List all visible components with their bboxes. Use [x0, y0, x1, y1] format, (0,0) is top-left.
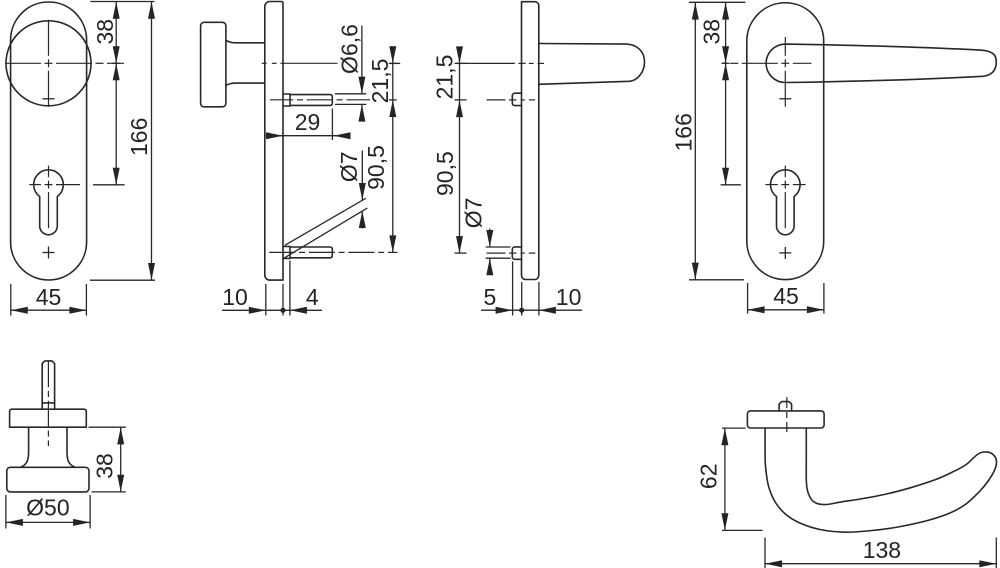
dimension line 166: [694, 2, 696, 280]
dimension dia 6,6: [361, 26, 363, 94]
keyhole centerline vertical: [48, 166, 50, 178]
extension line plate bottom: [689, 279, 744, 281]
knob neck top: [226, 41, 265, 43]
extension line keyhole center: [721, 184, 741, 186]
svg-text:Ø7: Ø7: [461, 198, 487, 229]
knob head drum: [7, 467, 89, 492]
svg-text:38: 38: [698, 19, 724, 45]
view 3: lever plate side view: [432, 2, 645, 316]
extension line plate top: [689, 1, 745, 3]
euro cylinder keyhole: [770, 170, 800, 235]
ext tick pin top axis: [455, 99, 467, 101]
plate (stadium 45x166): [747, 3, 824, 280]
knob head: [201, 22, 226, 107]
oblique extension lower: [284, 208, 367, 258]
rose flange: [747, 411, 824, 428]
pin bottom axis chain: [269, 251, 295, 253]
screw mark + bottom: [43, 252, 55, 254]
knob neck right: [67, 427, 75, 467]
svg-text:5: 5: [484, 284, 497, 310]
extension lines 45: [10, 284, 12, 316]
boss centerline vertical: [784, 37, 786, 56]
svg-text:45: 45: [773, 283, 799, 309]
dimension line 166: [151, 2, 153, 281]
svg-text:29: 29: [295, 109, 321, 135]
ext tick knob axis: [390, 62, 400, 64]
plate profile: [522, 2, 539, 280]
svg-text:Ø7: Ø7: [336, 151, 362, 182]
svg-text:90,5: 90,5: [432, 151, 458, 196]
svg-text:38: 38: [92, 19, 118, 45]
plate (stadium 45x166): [11, 2, 87, 280]
handle axis chain: [456, 62, 515, 64]
svg-text:45: 45: [36, 284, 62, 310]
dimension line 45: [748, 309, 824, 311]
screw mark + top: [779, 98, 791, 100]
knob circle: [6, 21, 91, 106]
svg-text:138: 138: [863, 537, 901, 563]
dimension line 38: [120, 427, 122, 492]
ext tick handle axis: [455, 62, 467, 64]
extension line keyhole center: [93, 184, 125, 186]
svg-text:Ø6,6: Ø6,6: [337, 24, 363, 74]
fixing pin bottom (head): [512, 247, 521, 259]
lever handle curved body: [765, 428, 996, 532]
view 4: lever plate front view: [670, 2, 996, 313]
rose flange: [10, 409, 87, 427]
ext lines 5 and 10: [512, 262, 514, 316]
ext line 62 bottom: [722, 529, 763, 531]
knob axis chain line: [262, 62, 267, 64]
svg-text:90,5: 90,5: [363, 145, 389, 190]
oblique extension upper: [285, 198, 366, 245]
fixing pin top: shaft: [290, 95, 332, 106]
extension lines 45: [747, 283, 749, 314]
view 6: lever handle detail top view: [696, 397, 997, 568]
lever grip side view: [539, 44, 645, 85]
euro cylinder keyhole: [34, 170, 64, 235]
dimension line 45: [11, 309, 87, 311]
svg-text:21,5: 21,5: [432, 55, 458, 100]
ext lines 138: [764, 538, 766, 568]
extension line plate bottom: [90, 279, 155, 281]
ext tick pin bottom axis: [455, 252, 467, 254]
spindle collar line: [42, 402, 54, 404]
spindle axis chain: [786, 397, 788, 408]
dimension line 38 / chain to cylinder: [725, 2, 727, 185]
dimension line 10 / 4: [222, 309, 322, 311]
view 1: knob short plate, front view: [5, 2, 155, 316]
dimension line 21,5 / 90,5: [459, 47, 461, 253]
ext lines dia 50: [5, 495, 7, 529]
keyhole centerline vertical: [784, 166, 786, 178]
ext line 62 top: [722, 427, 746, 429]
spindle stub: [779, 402, 792, 411]
knob neck left: [21, 427, 29, 467]
dimension line 29: [266, 135, 350, 137]
pin top axis chain: [270, 99, 293, 101]
dimension line dia 50: [6, 521, 90, 523]
svg-text:166: 166: [126, 118, 152, 156]
boss centerline horizontal: [723, 62, 727, 64]
knob centerline horizontal: [5, 62, 41, 64]
svg-text:21,5: 21,5: [367, 59, 393, 104]
spindle: [42, 361, 54, 409]
dimension line 21,5 / 90,5: [392, 47, 394, 253]
knob neck bottom: [226, 83, 265, 85]
pin bottom axis chain: [487, 252, 506, 254]
lever handle with boss (hides plate edge): [766, 44, 996, 82]
svg-text:Ø50: Ø50: [26, 495, 69, 521]
ext lines 38: [89, 426, 126, 428]
dimension line 38 / chain to cylinder: [115, 2, 117, 185]
spindle axis chain: [47, 361, 49, 387]
view 2: knob plate side view: [201, 2, 401, 316]
knob centerline vertical: [48, 20, 50, 56]
svg-text:10: 10: [222, 284, 248, 310]
fixing pin top: head: [283, 94, 290, 106]
plate profile: [265, 2, 283, 281]
ext lines 10 and 4: [265, 284, 267, 316]
fixing pin bottom: head: [283, 246, 290, 258]
svg-text:166: 166: [670, 113, 696, 151]
dimension dia 7: [361, 151, 363, 201]
svg-text:38: 38: [92, 453, 118, 479]
keyhole centerline horizontal: [29, 184, 41, 186]
ext lines dia 6,6: [335, 93, 366, 95]
svg-text:4: 4: [306, 284, 319, 310]
keyhole centerline horizontal: [765, 184, 777, 186]
fixing pin top (head): [512, 93, 521, 105]
dimension line 62: [724, 428, 726, 530]
ext line 29 at pin end: [331, 109, 333, 141]
screw mark + top: [43, 98, 55, 100]
dimension dia 7: [489, 229, 491, 247]
ext lines dia 7: [486, 246, 511, 248]
dimension line 138: [765, 563, 996, 565]
pin top axis chain: [487, 99, 506, 101]
dimension line 5 / 10: [481, 309, 582, 311]
view 5: knob detail top view: [6, 361, 126, 529]
screw mark + bottom: [779, 252, 791, 254]
svg-text:10: 10: [556, 284, 582, 310]
extension line plate top: [90, 1, 154, 3]
svg-text:62: 62: [696, 464, 722, 490]
fixing pin bottom: shaft: [290, 247, 332, 258]
